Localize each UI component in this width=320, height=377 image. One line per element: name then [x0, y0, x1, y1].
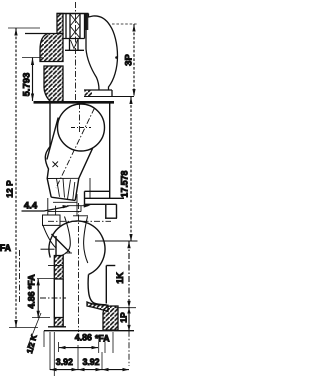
svg-text:17.578: 17.578 [120, 170, 130, 197]
svg-text:1K: 1K [115, 272, 125, 284]
svg-text:1/2 K: 1/2 K [25, 334, 39, 355]
svg-text:5.793: 5.793 [22, 73, 33, 97]
svg-text:3.92: 3.92 [56, 357, 73, 367]
svg-text:3P: 3P [124, 54, 135, 66]
svg-text:1P: 1P [119, 312, 129, 323]
svg-text:4.4: 4.4 [24, 201, 38, 212]
svg-text:4.86: 4.86 [75, 333, 92, 343]
svg-text:12 P: 12 P [5, 180, 15, 198]
svg-text:4.86 *FA: 4.86 *FA [26, 274, 36, 309]
svg-text:3.92: 3.92 [82, 357, 99, 367]
svg-text:*FA: *FA [95, 334, 110, 344]
svg-text:FA: FA [0, 243, 12, 253]
